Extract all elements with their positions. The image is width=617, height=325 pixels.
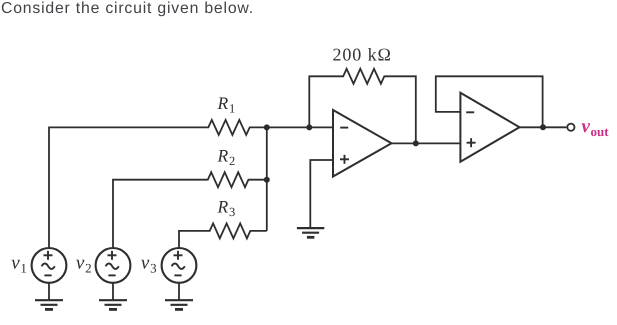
svg-text:R: R [217,145,229,165]
svg-text:3: 3 [150,260,157,275]
svg-text:v: v [582,116,591,137]
svg-text:v: v [141,253,150,274]
svg-text:1: 1 [20,260,27,275]
svg-text:v: v [11,253,20,274]
svg-text:3: 3 [229,205,235,219]
svg-text:200 kΩ: 200 kΩ [333,45,392,65]
svg-text:v: v [76,253,85,274]
svg-text:R: R [217,197,229,217]
svg-text:R: R [217,93,229,113]
svg-text:2: 2 [229,154,235,168]
svg-text:out: out [591,124,610,139]
svg-text:Consider the circuit given bel: Consider the circuit given below. [1,0,254,17]
svg-text:1: 1 [229,102,235,116]
svg-text:2: 2 [85,260,92,275]
